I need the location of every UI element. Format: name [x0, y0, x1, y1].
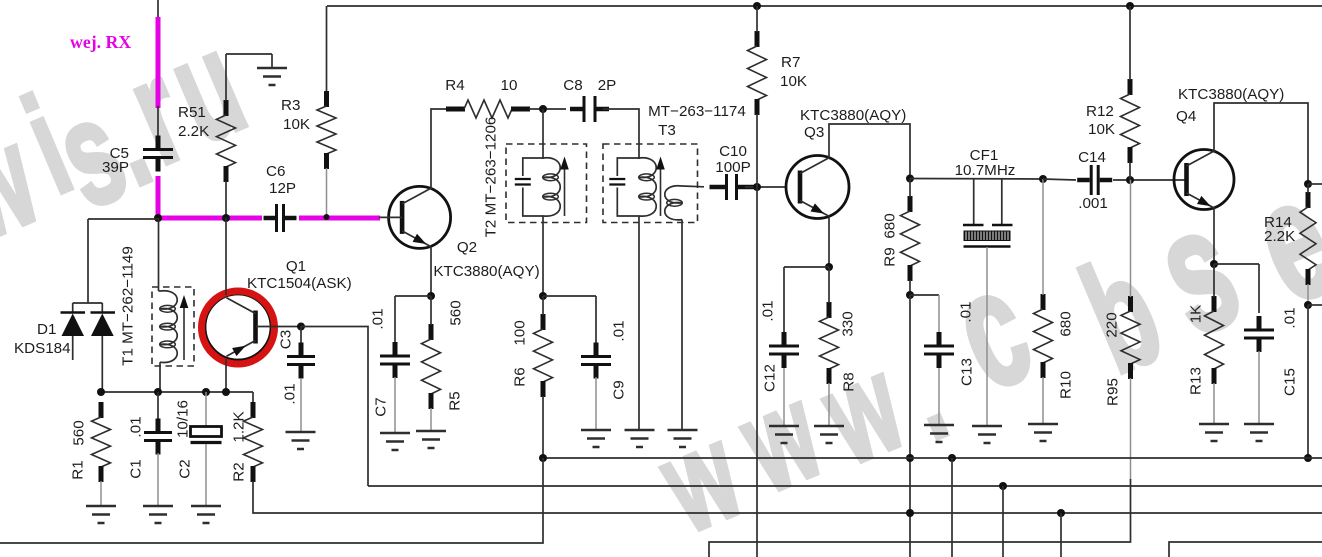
- svg-text:Q4: Q4: [1176, 108, 1196, 125]
- label R14: [1264, 214, 1295, 245]
- wire R6 top: [542, 296, 544, 315]
- red circle annotation around Q1: [202, 291, 275, 364]
- wire Q3 emitter down: [828, 218, 830, 267]
- node R3 magenta junction: [324, 214, 330, 220]
- wire base bus y392: [101, 391, 253, 393]
- label C2: [175, 400, 194, 479]
- svg-text:.01: .01: [128, 416, 145, 437]
- inductor T1 coil: [160, 291, 178, 363]
- label R51: [178, 104, 209, 140]
- svg-text:KTC3880(AQY): KTC3880(AQY): [433, 263, 539, 280]
- svg-text:.01: .01: [282, 383, 299, 404]
- wire R13 top: [1213, 264, 1215, 297]
- label C3: [278, 330, 299, 405]
- ground C13: [924, 425, 954, 442]
- svg-text:560: 560: [448, 300, 465, 325]
- node bus458 left: [539, 454, 547, 462]
- wire R9 bottom: [909, 280, 911, 295]
- node R12 bottom junction: [1126, 176, 1134, 184]
- label C7: [370, 308, 390, 416]
- wire R10 bottom: [1042, 377, 1044, 423]
- wire R1 bottom: [100, 481, 102, 506]
- wire R13 bottom: [1213, 383, 1215, 423]
- svg-text:R4: R4: [445, 77, 464, 94]
- wire R5 bottom: [430, 408, 432, 430]
- label R4: [445, 77, 517, 94]
- ground C2: [191, 506, 221, 523]
- svg-text:KTC3880(AQY): KTC3880(AQY): [800, 107, 906, 124]
- svg-text:C7: C7: [373, 397, 390, 416]
- svg-text:39P: 39P: [102, 159, 129, 176]
- wire Q1 base feedback: [301, 327, 368, 487]
- node R7 bottom junction: [753, 183, 761, 191]
- svg-text:C9: C9: [611, 380, 628, 399]
- ground R5: [416, 431, 446, 448]
- label C9: [611, 320, 628, 399]
- label R5: [447, 300, 465, 410]
- wire R9 node down: [909, 295, 911, 557]
- capacitor T3 internal: [609, 158, 639, 216]
- arrow T3 tuning: [656, 157, 665, 217]
- svg-text:2.2K: 2.2K: [1264, 228, 1295, 245]
- label Q4: [1176, 86, 1284, 125]
- svg-text:.01: .01: [611, 320, 628, 341]
- label T3: [648, 103, 746, 139]
- svg-text:2.2K: 2.2K: [178, 123, 209, 140]
- node R14 bottom junction: [1304, 301, 1312, 309]
- wire R7 bottom: [756, 114, 758, 187]
- wire T3 to C10: [682, 185, 704, 188]
- capacitor T2 internal: [515, 158, 544, 216]
- capacitor C12: [769, 267, 799, 425]
- wire D1 branch horizontal: [88, 218, 158, 220]
- label C15: [1282, 307, 1299, 396]
- node Q4 emitter junction: [1210, 260, 1218, 268]
- wire box corner right: [1169, 542, 1322, 557]
- svg-text:C6: C6: [266, 163, 285, 180]
- inductor T2 coil: [543, 158, 561, 216]
- wire CF1 to C14: [1043, 179, 1076, 180]
- node R1 top: [97, 388, 105, 396]
- node bus486 x1003: [999, 482, 1007, 490]
- svg-text:Q3: Q3: [804, 124, 824, 141]
- svg-text:Q2: Q2: [457, 239, 477, 256]
- wire T1 top: [159, 218, 161, 291]
- label T1: [120, 246, 137, 366]
- label R10: [1058, 311, 1075, 399]
- svg-text:D1: D1: [37, 321, 56, 338]
- ground C15: [1244, 424, 1274, 441]
- node bus458 x952: [948, 454, 956, 462]
- node Q1 emitter junction: [222, 388, 230, 396]
- wire R3 top drop: [326, 6, 328, 92]
- ground C12: [769, 426, 799, 443]
- capacitor C3: [287, 327, 315, 432]
- node Q3 collector junction: [906, 175, 914, 183]
- wire T2 top entry: [542, 109, 544, 159]
- label CF1: [955, 147, 1016, 179]
- wire drop x1003: [1002, 486, 1004, 557]
- resistor R2: [244, 392, 263, 482]
- resistor R9: [901, 196, 920, 281]
- node bus513 x1061: [1057, 509, 1065, 517]
- svg-text:R5: R5: [447, 391, 464, 410]
- label R1: [70, 420, 88, 479]
- svg-text:12P: 12P: [269, 180, 296, 197]
- capacitor C15: [1244, 264, 1274, 423]
- wire R9 top: [909, 179, 911, 198]
- wire AGC drop x757: [756, 187, 758, 557]
- label C8: [563, 77, 616, 94]
- wire R2 bottom to bus: [253, 481, 1322, 513]
- wire Q4e to C15: [1214, 263, 1259, 265]
- wire R14 bottom: [1307, 284, 1309, 305]
- watermark wis.ru: [0, 1, 265, 270]
- wire magenta RX vertical upper: [156, 17, 161, 108]
- ground C7: [380, 433, 410, 450]
- wire bus y486: [368, 485, 1322, 487]
- capacitor C10: [710, 174, 754, 200]
- label C10: [715, 143, 750, 176]
- wire R10 top: [1042, 179, 1044, 295]
- label R12: [1086, 103, 1115, 138]
- arrow T2 tuning: [560, 157, 569, 217]
- label R7: [780, 54, 807, 90]
- capacitor C13: [924, 295, 954, 424]
- arrow T1 tuning: [180, 295, 189, 360]
- svg-text:.01: .01: [1282, 307, 1299, 328]
- wire R14 node to edge: [1308, 304, 1322, 306]
- capacitor C5: [143, 136, 173, 172]
- node C1 top: [154, 388, 162, 396]
- wire T1 bottom: [158, 362, 160, 392]
- node Q1 base node: [297, 323, 305, 331]
- svg-text:R6: R6: [512, 367, 529, 386]
- wire magenta RX vertical lower: [156, 176, 161, 218]
- ground T3 secondary: [668, 430, 698, 447]
- wire R51 bottom: [225, 181, 227, 218]
- wire R95 top: [1130, 180, 1132, 297]
- wire R14 node down: [1307, 305, 1309, 458]
- svg-text:C15: C15: [1282, 368, 1299, 396]
- diode D1 dual: [61, 303, 116, 392]
- svg-text:10K: 10K: [780, 73, 807, 90]
- wire C10 to Q3 base: [745, 186, 786, 188]
- transistor Q2: [389, 186, 451, 248]
- resistor R12: [1121, 79, 1140, 163]
- svg-text:MT−263−1174: MT−263−1174: [648, 103, 746, 120]
- resistor R7: [748, 31, 767, 115]
- ground T3 primary: [625, 430, 655, 447]
- wire magenta RX horizontal right: [299, 216, 380, 221]
- svg-text:.01: .01: [370, 308, 387, 329]
- svg-text:R7: R7: [781, 54, 800, 71]
- node R51 magenta junction: [222, 214, 230, 222]
- wire magenta RX horizontal left: [156, 216, 262, 221]
- node R10 top junction: [1039, 175, 1047, 183]
- svg-text:C13: C13: [959, 358, 976, 386]
- node R9 bus2 junction: [906, 509, 914, 517]
- wire Q2 emitter down: [430, 247, 432, 296]
- resistor R95: [1121, 296, 1140, 379]
- ground CF1: [972, 426, 1002, 443]
- inductor T3 coil: [639, 158, 657, 216]
- svg-text:C14: C14: [1078, 149, 1106, 166]
- wire R3 bottom: [326, 168, 328, 217]
- wire Q4 collector up: [1214, 103, 1308, 184]
- svg-text:10/16: 10/16: [175, 400, 192, 438]
- transistor Q4: [1174, 150, 1234, 210]
- wire Q2e to C7: [395, 295, 431, 297]
- svg-text:wej. RX: wej. RX: [70, 32, 131, 52]
- label C1: [128, 416, 145, 478]
- node magenta corner: [154, 214, 162, 222]
- svg-text:R2: R2: [231, 462, 248, 481]
- svg-text:R51: R51: [178, 104, 206, 121]
- label R3: [281, 97, 310, 133]
- label Q1: [247, 258, 352, 292]
- node Q2 emitter junction: [427, 292, 435, 300]
- wire drop x1061: [1060, 513, 1062, 557]
- transistor Q3: [786, 156, 849, 219]
- label C14: [1078, 149, 1108, 212]
- ground R8: [814, 426, 844, 443]
- node Q3 emitter junction: [825, 263, 833, 271]
- node Q4 collector junction: [1304, 180, 1312, 188]
- svg-text:KTC1504(ASK): KTC1504(ASK): [247, 275, 352, 292]
- svg-text:1K: 1K: [1188, 305, 1205, 324]
- wire Q3e to C12: [784, 266, 829, 268]
- label D1: [14, 321, 71, 357]
- svg-text:680: 680: [882, 213, 899, 238]
- svg-text:C8: C8: [563, 77, 582, 94]
- svg-text:KTC3880(AQY): KTC3880(AQY): [1178, 86, 1284, 103]
- ground C3: [286, 432, 316, 449]
- wire Q1 base out: [256, 326, 301, 328]
- svg-text:100P: 100P: [715, 159, 750, 176]
- ground C9: [581, 430, 611, 447]
- resistor R3: [317, 91, 336, 169]
- transformer T1 box: [152, 287, 194, 366]
- node R7 rail junction: [753, 2, 761, 10]
- wire R8 top: [828, 267, 830, 303]
- capacitor C14: [1077, 165, 1112, 195]
- resistor R8: [820, 302, 839, 384]
- label C13: [958, 301, 976, 386]
- svg-text:R95: R95: [1105, 378, 1122, 406]
- wire Q4 emitter down: [1213, 209, 1215, 264]
- svg-text:C3: C3: [278, 330, 295, 349]
- label C6: [266, 163, 296, 197]
- capacitor C2 electrolytic: [191, 392, 222, 506]
- svg-text:220: 220: [1104, 312, 1121, 337]
- wire drop x952: [951, 458, 953, 557]
- wire Q3 collector up: [829, 124, 910, 179]
- svg-text:.01: .01: [760, 300, 777, 321]
- capacitor C8: [570, 96, 609, 122]
- svg-text:10.7MHz: 10.7MHz: [955, 162, 1016, 179]
- wire bus y543 left: [0, 458, 543, 543]
- resistor R1: [92, 402, 111, 482]
- label R13: [1188, 305, 1205, 395]
- wire R7 top: [756, 6, 758, 32]
- node R14 bus junction: [1304, 454, 1312, 462]
- wire C8 to T3: [603, 109, 639, 159]
- svg-text:680: 680: [1058, 311, 1075, 336]
- svg-text:Q1: Q1: [286, 258, 306, 275]
- svg-text:330: 330: [840, 311, 857, 336]
- resistor R51: [217, 100, 236, 182]
- svg-text:10K: 10K: [1088, 121, 1115, 138]
- svg-text:.01: .01: [958, 301, 975, 322]
- wire R6 bottom: [542, 396, 544, 458]
- transistor Q1: [205, 294, 271, 360]
- ground C1: [143, 506, 173, 523]
- svg-text:100: 100: [512, 320, 529, 345]
- wire R12 bottom: [1129, 162, 1131, 180]
- svg-text:KDS184: KDS184: [14, 340, 71, 357]
- node T2 top junction: [539, 105, 547, 113]
- resistor R6: [534, 314, 553, 397]
- ceramic filter CF1: [963, 179, 1013, 425]
- wire R9node to C13: [910, 294, 939, 296]
- capacitor C9: [581, 296, 611, 429]
- capacitor C1: [144, 392, 172, 506]
- node C2 top: [202, 388, 210, 396]
- svg-text:R12: R12: [1086, 103, 1114, 120]
- wire C14 to Q4 base: [1113, 179, 1187, 181]
- svg-text:R13: R13: [1188, 367, 1205, 395]
- svg-text:T2 MT−263−1206: T2 MT−263−1206: [483, 117, 500, 238]
- ground R51 top: [257, 54, 287, 85]
- label Q3: [800, 107, 906, 141]
- svg-text:C10: C10: [719, 143, 747, 160]
- svg-text:R10: R10: [1058, 371, 1075, 399]
- ground R10: [1028, 424, 1058, 441]
- svg-text:C2: C2: [177, 459, 194, 478]
- label T2: [483, 117, 500, 238]
- wire CF1 input line: [910, 178, 1043, 181]
- svg-text:T3: T3: [658, 122, 676, 139]
- svg-text:R1: R1: [70, 460, 87, 479]
- svg-text:10: 10: [501, 77, 518, 94]
- wire top supply rail: [327, 5, 1322, 7]
- wire C5 upper link: [157, 106, 159, 137]
- transformer T2 box: [506, 144, 587, 223]
- svg-text:.001: .001: [1078, 195, 1108, 212]
- ground R13: [1199, 424, 1229, 441]
- resistor R13: [1205, 296, 1224, 384]
- svg-text:1.2K: 1.2K: [231, 411, 248, 442]
- wire R12 top: [1129, 6, 1131, 80]
- node R9 bus junction: [906, 454, 914, 462]
- wire R6 to C9: [543, 295, 596, 297]
- svg-text:R3: R3: [281, 97, 300, 114]
- capacitor C7: [380, 296, 410, 433]
- label R6: [512, 320, 529, 386]
- label R95: [1104, 312, 1122, 406]
- wire R51 top: [226, 54, 272, 101]
- label R9: [882, 213, 899, 266]
- node R12 rail junction: [1126, 2, 1134, 10]
- wire D1 branch vertical: [87, 219, 89, 303]
- wire R4 to C8: [529, 108, 566, 110]
- resistor R10: [1034, 294, 1053, 378]
- resistor R14: [1300, 192, 1316, 285]
- wire Q1 emitter: [225, 359, 227, 392]
- wire RX input top stub: [157, 0, 159, 18]
- resistor R5: [422, 324, 441, 409]
- wire T2 bottom exit: [542, 216, 544, 296]
- svg-text:C12: C12: [762, 364, 779, 392]
- wire Q2 base link: [379, 216, 402, 218]
- label Q2: [433, 239, 539, 280]
- label wej. RX: [70, 32, 131, 52]
- svg-text:2P: 2P: [598, 77, 617, 94]
- wire T3 primary ground lead: [638, 216, 640, 429]
- watermark www.cbse: [640, 141, 1322, 557]
- inductor T3 secondary: [665, 186, 683, 220]
- ground R1: [86, 506, 116, 523]
- wire Q2 collector up: [431, 109, 446, 189]
- label R2: [231, 411, 248, 481]
- svg-text:R8: R8: [841, 372, 858, 391]
- svg-text:560: 560: [71, 420, 88, 445]
- transformer T3 box: [603, 144, 698, 223]
- node R6 top junction: [539, 292, 547, 300]
- label R8: [840, 311, 858, 391]
- label C12: [760, 300, 779, 392]
- wire R8 bottom: [828, 383, 830, 425]
- wire R14 top: [1307, 184, 1309, 193]
- wire R5 top: [430, 296, 432, 325]
- wire bus y458: [543, 457, 1322, 459]
- wire R95 bottom: [709, 378, 1131, 557]
- label C5: [102, 145, 129, 176]
- svg-text:R9: R9: [882, 247, 899, 266]
- svg-text:10K: 10K: [283, 116, 310, 133]
- resistor R4: [446, 100, 530, 118]
- wire Q4 collector to edge: [1308, 183, 1322, 185]
- svg-text:T1 MT−262−1149: T1 MT−262−1149: [120, 246, 137, 366]
- wire Q1 collector: [225, 218, 227, 295]
- wire T3 secondary ground lead: [681, 220, 683, 430]
- capacitor C6: [264, 204, 297, 232]
- node R9 bottom junction: [906, 291, 914, 299]
- svg-text:C1: C1: [128, 459, 145, 478]
